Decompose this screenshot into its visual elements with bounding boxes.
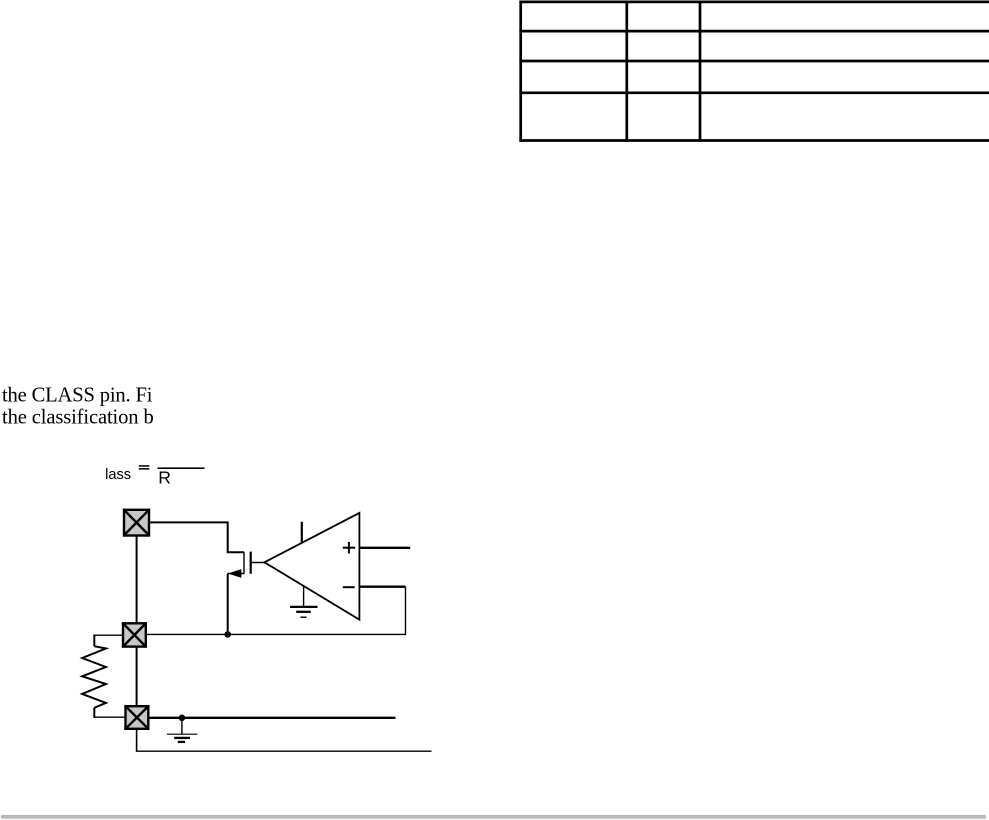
resistor R_CLASS zigzag — [82, 646, 106, 708]
svg-text:lass: lass — [105, 467, 131, 483]
svg-text:the classification b: the classification b — [2, 406, 154, 428]
wire: MOSFET drain down to feedback node — [227, 574, 229, 636]
pad/pin top (crossed box) — [123, 509, 149, 536]
wire: top pad to middle pad — [136, 535, 138, 624]
svg-text:R: R — [158, 468, 171, 488]
svg-text:the CLASS pin. Fi: the CLASS pin. Fi — [2, 385, 153, 407]
wire: bottom pad to the right — [149, 717, 396, 719]
wire: + input stub to the right — [359, 547, 410, 549]
wire: bottom pad down and right (return line) — [136, 729, 432, 751]
table (empty, cropped at top/right) — [519, 1, 989, 142]
op-amp negative supply stub — [303, 587, 305, 607]
pad/pin middle (crossed box) — [122, 623, 146, 648]
wire: middle pad to resistor top — [94, 635, 123, 647]
formula fraction bar — [158, 467, 205, 469]
wire: resistor bottom to bottom pad — [94, 708, 126, 718]
op-amp - symbol — [343, 586, 355, 588]
wire: middle pad to bottom pad — [136, 647, 138, 708]
pad/pin bottom (crossed box) — [125, 706, 149, 730]
MOSFET Q1 channel bar — [243, 552, 245, 574]
formula equals sign — [139, 465, 150, 469]
wire: top pad to MOSFET source (right then down then right) — [149, 522, 245, 552]
MOSFET Q1 drain terminal with arrow — [228, 569, 244, 578]
op-amp positive supply stub — [301, 522, 303, 543]
ground symbol (signal ground) — [167, 718, 197, 742]
op-amp U1 — [264, 513, 359, 620]
op-amp + symbol — [343, 542, 355, 554]
junction dot A (drain / feedback) — [224, 631, 231, 638]
MOSFET Q1 gate bar — [250, 552, 252, 574]
wire: gate lead to op-amp output — [252, 562, 265, 564]
ground symbol (op-amp supply) — [290, 607, 317, 617]
footer separator bar — [1, 815, 986, 819]
wire: - input feedback (right, down, left to middle pad) — [146, 587, 406, 635]
junction dot B (ground tap) — [179, 715, 186, 722]
